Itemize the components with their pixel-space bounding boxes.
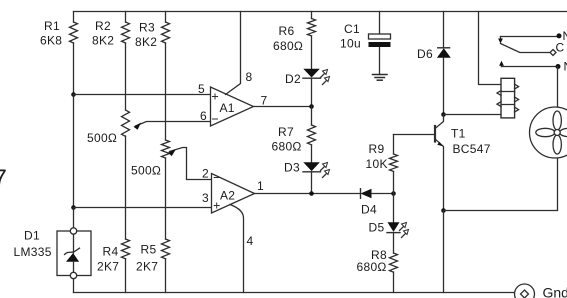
wire D3 to node D [311, 172, 313, 194]
wire P2 to R5 [165, 158, 167, 239]
svg-text:680Ω: 680Ω [273, 39, 303, 53]
wire node A to A1 pin5 [74, 94, 211, 96]
svg-text:A1: A1 [220, 101, 235, 115]
wire R3 to pot P2 [165, 43, 167, 140]
svg-text:D5: D5 [369, 221, 385, 235]
svg-text:10u: 10u [340, 37, 361, 51]
node F junction dot [391, 191, 396, 196]
svg-text:D6: D6 [417, 47, 433, 61]
svg-text:R5: R5 [141, 243, 157, 257]
diode D6 [417, 12, 451, 115]
LED D5 [369, 194, 409, 238]
fan M1 [530, 107, 567, 158]
svg-text:8: 8 [246, 70, 253, 84]
svg-text:2K7: 2K7 [97, 260, 119, 274]
wire R4 to ground rail [125, 259, 127, 293]
wire A2 pin4 to ground rail [230, 205, 244, 293]
resistor R8 [357, 233, 398, 293]
svg-text:7: 7 [0, 165, 7, 192]
sensor D1 LM335 [14, 228, 92, 279]
svg-text:6K8: 6K8 [40, 34, 62, 48]
wire bottom ground rail [74, 292, 515, 294]
svg-text:D1: D1 [24, 229, 40, 243]
svg-text:D4: D4 [361, 203, 377, 217]
op-amp A1 [198, 70, 268, 126]
wire node G to fan bottom [444, 158, 558, 211]
LED D3 [284, 161, 330, 178]
resistor R6 [273, 12, 316, 54]
svg-text:6: 6 [200, 109, 207, 123]
wire supply to relay coil [479, 12, 502, 85]
wire node B to D1 [73, 208, 75, 232]
wire top supply rail [74, 11, 567, 13]
svg-text:2: 2 [202, 167, 209, 181]
wire R6 to D2 [311, 36, 313, 69]
wire D1 to ground rail [73, 279, 75, 293]
resistor R7 [272, 107, 316, 154]
capacitor C1 [340, 12, 391, 75]
svg-text:3: 3 [202, 191, 209, 205]
potentiometer P2 500ohm [131, 140, 212, 180]
svg-text:7: 7 [261, 94, 268, 108]
wire D2 to node C [311, 78, 313, 106]
potentiometer P1 500ohm [87, 110, 211, 145]
svg-text:5: 5 [198, 82, 205, 96]
op-amp A2 [202, 167, 264, 249]
svg-text:N: N [564, 60, 567, 74]
wire node A down to node B [73, 95, 75, 208]
svg-text:500Ω: 500Ω [87, 131, 117, 145]
relay coil K1 [497, 78, 519, 118]
svg-text:4: 4 [247, 234, 254, 248]
resistor R3 [135, 12, 170, 50]
svg-text:R1: R1 [44, 19, 60, 33]
text fragment 7 left edge [0, 165, 7, 192]
node D junction dot [309, 191, 314, 196]
transistor T1 BC547 [394, 115, 491, 211]
svg-text:8K2: 8K2 [135, 35, 157, 49]
wire node B to A2 pin3 [74, 207, 212, 209]
LED D2 [285, 69, 330, 86]
resistor R4 [97, 239, 130, 274]
svg-text:8K2: 8K2 [92, 34, 114, 48]
svg-text:500Ω: 500Ω [131, 164, 161, 178]
svg-text:LM335: LM335 [14, 245, 52, 259]
node B junction dot [71, 205, 76, 210]
svg-text:T1: T1 [451, 127, 466, 141]
svg-text:C1: C1 [344, 22, 360, 36]
wire fan top to contact [557, 67, 559, 108]
svg-text:D3: D3 [284, 161, 300, 175]
wire A2 output pin1 [255, 193, 361, 195]
wire emitter to ground rail [443, 211, 445, 293]
svg-text:C: C [556, 41, 565, 55]
svg-text:R9: R9 [369, 142, 385, 156]
relay contact NC [498, 29, 567, 44]
wire R5 to ground rail [165, 259, 167, 293]
wire R7 to D3 [311, 145, 313, 162]
svg-text:680Ω: 680Ω [357, 260, 387, 274]
svg-text:R2: R2 [95, 19, 111, 33]
wire R2 to pot P1 [125, 43, 127, 110]
svg-text:R3: R3 [139, 21, 155, 35]
svg-text:R6: R6 [279, 24, 295, 38]
wire collector to relay coil [444, 114, 502, 116]
terminal Gnd [515, 284, 567, 298]
node G emitter junction dot [441, 208, 446, 213]
wire P1 to R4 [125, 136, 127, 239]
diode D4 [361, 189, 394, 217]
svg-text:Gnd: Gnd [543, 285, 567, 298]
svg-text:1: 1 [257, 179, 264, 193]
svg-text:2K7: 2K7 [136, 260, 158, 274]
resistor R9 [366, 135, 398, 194]
svg-text:10K: 10K [366, 157, 388, 171]
svg-text:A2: A2 [220, 189, 235, 203]
wire R1 bottom to node A [73, 43, 75, 95]
svg-text:BC547: BC547 [453, 142, 491, 156]
svg-text:R4: R4 [103, 245, 119, 259]
svg-text:680Ω: 680Ω [272, 140, 302, 154]
relay contact NO [499, 60, 567, 74]
resistor R2 [92, 12, 130, 48]
svg-text:D2: D2 [285, 72, 301, 86]
wire A1 output pin7 [254, 106, 312, 108]
node A junction dot [71, 92, 76, 97]
resistor R1 [40, 12, 78, 48]
ground symbol [373, 75, 388, 81]
resistor R5 [136, 239, 170, 274]
svg-text:R7: R7 [278, 125, 294, 139]
node C junction dot [309, 104, 314, 109]
wire A1 pin8 power from rail [226, 12, 241, 95]
relay lever to common C [501, 41, 565, 56]
node E collector junction dot [441, 112, 446, 117]
